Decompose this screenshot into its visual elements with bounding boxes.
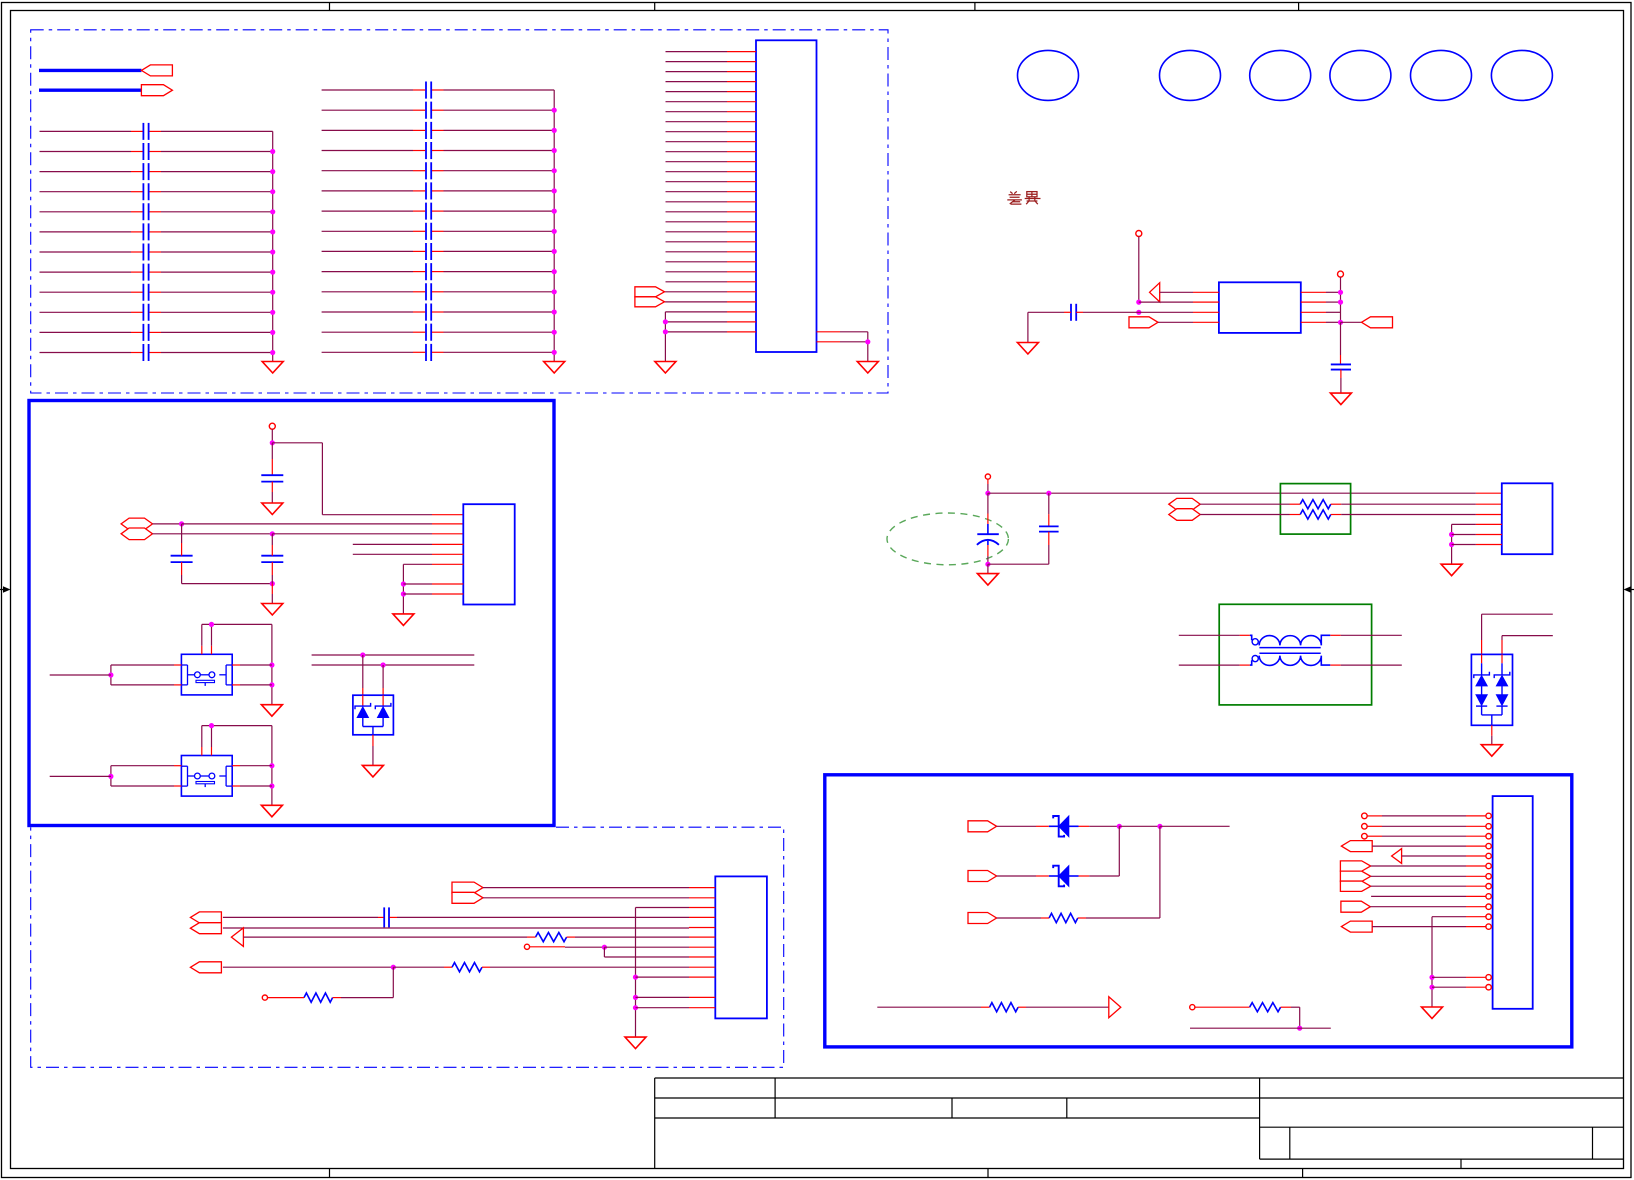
wire: [1200, 514, 1289, 516]
wire right bus Y2: [271, 726, 273, 806]
wire net to J3 pin1: [988, 492, 1476, 494]
port to J4 pin5: [190, 923, 221, 934]
wire right bus: [1340, 277, 1342, 322]
T1 core: [1259, 647, 1320, 649]
mounting hole pad M6: [1491, 50, 1552, 100]
capacitor C: [261, 555, 283, 557]
wire to ground: [271, 584, 273, 594]
port to J4 pin9: [190, 962, 221, 973]
arrow head: [231, 928, 243, 947]
junctions bank 2: [552, 108, 557, 113]
port from U2 pin5: [1362, 317, 1393, 328]
Y2 right pin wires: [232, 765, 240, 767]
test point TP4: [985, 474, 990, 479]
ground: [262, 362, 283, 374]
ground: [1017, 343, 1038, 355]
label text 差異: [1007, 191, 1022, 204]
resistor RN1a: [1300, 500, 1331, 509]
highlight ellipse (dashed): [887, 513, 1008, 565]
wire T1 in bottom: [1179, 664, 1240, 666]
port P2 (right-pointing) with bus wire: [39, 88, 141, 91]
net circle: [1362, 824, 1368, 830]
wire to ground: [987, 564, 989, 573]
wire to J2 pin2: [153, 523, 182, 525]
port (bidir): [121, 528, 152, 540]
wire: [362, 655, 364, 688]
wire: [181, 524, 183, 543]
resistor R6: [990, 1003, 1019, 1012]
test point TP7: [1190, 1005, 1195, 1010]
resistor R7: [1250, 1003, 1281, 1012]
wire to ground: [1491, 725, 1493, 736]
wire: [997, 917, 1041, 919]
diode array D2: [1471, 654, 1512, 725]
ground: [261, 805, 282, 817]
J2 pin5 stub: [353, 553, 432, 555]
resistor network RN1: [1280, 484, 1350, 534]
port to J1 pin25: [635, 287, 665, 297]
wire J5 pin9 stub: [1371, 895, 1466, 897]
connector J3: [1502, 483, 1553, 554]
zener D4: [1059, 866, 1069, 887]
Y2 left pin wires: [174, 765, 181, 767]
mounting hole pad M1: [1018, 50, 1079, 100]
wire U2 pin1: [1160, 291, 1193, 293]
ground: [362, 765, 383, 777]
ground: [393, 614, 414, 626]
wire T1 in top: [1179, 634, 1240, 636]
wire J3 pin5: [1452, 534, 1476, 536]
node: [1136, 300, 1141, 305]
ground bus: [402, 564, 404, 614]
wire: [997, 825, 1036, 827]
zener D1b: [382, 695, 384, 705]
ground: [261, 705, 282, 717]
IC U2: [1219, 282, 1301, 333]
wire J4 pin8: [603, 947, 605, 957]
wire to ground: [1027, 312, 1029, 342]
wire net A: [312, 654, 475, 656]
wire J3 pin6: [1452, 544, 1476, 546]
wire: [1482, 613, 1553, 615]
T1 phase dot bottom: [1252, 656, 1258, 662]
wire J5 pin5: [1402, 855, 1466, 857]
ground bus left of J1: [664, 312, 666, 362]
port to J4 pin1: [452, 882, 483, 893]
test point TP3: [269, 423, 275, 429]
arrow head: [1392, 849, 1402, 864]
T1 bottom winding: [1250, 656, 1330, 666]
mounting hole pad M3: [1250, 50, 1311, 100]
mounting hole pad M5: [1411, 50, 1472, 100]
ground: [262, 604, 283, 616]
wire to J2 pin3: [153, 533, 273, 535]
wire U2 pin4: [1158, 321, 1193, 323]
polarized capacitor C+: [987, 493, 989, 513]
wire J5 pin14: [1432, 986, 1466, 988]
wire to ground: [1340, 370, 1342, 379]
T1 top winding: [1250, 635, 1330, 645]
capacitor bank C-array1 plates: [143, 123, 148, 361]
choke T1 box: [1219, 604, 1371, 705]
wire T1 out bottom: [1330, 664, 1340, 666]
wire: [271, 534, 273, 545]
test point TP6: [262, 995, 267, 1000]
wire J5 pin3: [1367, 835, 1382, 837]
wire J5 pin8: [1371, 885, 1466, 887]
wire: [1200, 503, 1289, 505]
connector J4: [715, 876, 767, 1018]
wire: [1502, 635, 1553, 637]
capacitor bank C-array2 plates: [426, 82, 431, 362]
wire to C: [1340, 322, 1342, 355]
resistor R2: [536, 933, 567, 942]
port 1: [968, 821, 997, 832]
wire J4 pin5: [223, 927, 689, 929]
diode array D1: [353, 695, 394, 735]
ground bus: [635, 908, 637, 1038]
wire J4 pin4: [223, 916, 378, 918]
capacitor C: [1048, 493, 1050, 514]
resistor R5: [1049, 913, 1078, 922]
wire: [271, 482, 273, 492]
wire J2 pin8: [403, 593, 432, 595]
port into U2 pin4: [1129, 317, 1158, 328]
connector J2: [463, 504, 514, 604]
mounting hole pad M2: [1160, 50, 1221, 100]
wire: [382, 665, 384, 688]
connector J5: [1493, 796, 1533, 1009]
resistor RN1b: [1300, 510, 1331, 519]
port pin8: [1340, 881, 1370, 891]
zener D3: [1059, 816, 1069, 837]
wire: [271, 429, 273, 443]
wire: [1190, 1027, 1331, 1029]
wire J4 pin11: [636, 996, 690, 998]
test point TP2: [1338, 271, 1344, 277]
port to J1 pin26: [635, 297, 665, 307]
wire J4 pin6: [243, 936, 527, 938]
ground: [1481, 745, 1502, 757]
wire J4 pin9: [223, 966, 393, 968]
wire J4 pin12: [636, 1007, 690, 1009]
ground bus: [1451, 524, 1453, 564]
wire J5 pin7: [1371, 875, 1466, 877]
pins of J1: [727, 51, 756, 53]
port P1 (left-pointing) with bus wire: [39, 69, 141, 72]
ground: [857, 362, 878, 374]
wire J5 pin13: [1432, 976, 1466, 978]
wire J4 pin10: [636, 976, 690, 978]
port to J4 pin2: [452, 892, 483, 903]
capacitor C: [261, 474, 283, 476]
wire J4 pin3: [636, 907, 690, 909]
net circle: [1362, 813, 1368, 819]
J2 pin4 stub: [353, 543, 432, 545]
Y1 left pin wires: [174, 664, 181, 666]
wire J3 pin4: [1452, 523, 1476, 525]
capacitor C: [171, 555, 193, 557]
wire J5 pin1: [1367, 815, 1382, 817]
wires of capacitor bank 2: [322, 89, 413, 91]
wire U2 pin5: [1301, 321, 1326, 323]
crystal Y2: [181, 756, 232, 797]
wire: [202, 725, 272, 727]
ground: [1422, 1007, 1443, 1019]
ground: [977, 574, 998, 586]
capacitor C: [1331, 363, 1351, 365]
connector J1: [756, 40, 817, 352]
ground bus of bank 1: [272, 131, 274, 361]
ground: [655, 362, 676, 374]
wire: [1138, 237, 1140, 303]
wire: [271, 443, 273, 459]
wire: [997, 875, 1036, 877]
wire stub: [50, 775, 111, 777]
port 2: [968, 871, 997, 882]
crystal Y1: [181, 654, 232, 695]
port to J4 pin4: [190, 912, 221, 923]
ground: [1330, 393, 1351, 405]
ground bus: [1431, 917, 1433, 1007]
wire branch: [268, 997, 304, 999]
D2 column 2: [1501, 654, 1503, 663]
port (bidir): [121, 518, 152, 530]
wire: [202, 623, 272, 625]
Y1 right pin wires: [232, 664, 240, 666]
wire: [1195, 1006, 1249, 1008]
ground bus of bank 2: [553, 90, 555, 362]
wire J5 pin6: [1371, 865, 1466, 867]
capacitor C series: [383, 907, 385, 927]
wire U2 pin2: [1139, 301, 1193, 303]
net circle: [1362, 833, 1368, 839]
D1 common: [362, 718, 364, 727]
test point TP1: [1136, 231, 1142, 237]
wire J5 pin10: [1370, 906, 1466, 908]
buffer arrow: [1109, 997, 1121, 1018]
arrow head into U2 pin1: [1150, 283, 1160, 302]
wire to J2 pin1: [272, 442, 322, 444]
wire J4 pin7: [530, 946, 565, 948]
ground: [544, 362, 565, 374]
test point TP5: [524, 944, 529, 949]
wire U2 pin3: [1028, 311, 1064, 313]
port pin10: [1341, 901, 1370, 912]
D2 column 1: [1481, 654, 1483, 663]
D2 common: [1482, 714, 1502, 716]
wire net B: [312, 664, 475, 666]
wire: [988, 563, 1049, 565]
port from J5 pin12: [1341, 921, 1372, 932]
junctions bank 1: [270, 149, 275, 154]
port pin7: [1340, 871, 1370, 881]
J5 pins with pads: [1466, 815, 1486, 817]
wire J4 pin2: [483, 897, 689, 899]
wire J5 pin2: [1367, 825, 1382, 827]
wire J2 pin6: [403, 563, 432, 565]
wire J5 pin11: [1432, 916, 1466, 918]
wire J5 pin12: [1372, 926, 1466, 928]
wire J5 pin4: [1372, 845, 1466, 847]
ground: [262, 503, 283, 515]
port 3: [968, 913, 997, 924]
wire U2 pin8: [1301, 291, 1326, 293]
J1 right pin wires: [817, 331, 841, 333]
wire: [987, 479, 989, 484]
wire right bus Y1: [271, 624, 273, 704]
zener D1a: [362, 695, 364, 705]
capacitor C in series: [1070, 304, 1072, 321]
ground: [625, 1037, 646, 1049]
resistor R3: [452, 963, 482, 972]
wire T1 out top: [1330, 634, 1340, 636]
wires of capacitor bank 1: [40, 130, 132, 132]
port (bidir): [1169, 498, 1200, 510]
wire stub: [50, 674, 111, 676]
Y1 top pins: [201, 646, 203, 655]
T1 phase dot top: [1252, 639, 1258, 645]
mounting hole pad M4: [1330, 50, 1391, 100]
resistor R4: [304, 993, 333, 1002]
Y2 top pins: [201, 747, 203, 756]
wire to ground: [372, 735, 374, 746]
port from J5 pin4: [1341, 841, 1372, 852]
port pin6: [1340, 861, 1370, 871]
ground: [1441, 564, 1462, 576]
wire J4 pin1: [483, 887, 689, 889]
wire U2 pin7: [1301, 301, 1326, 303]
wire J2 pin7: [403, 583, 432, 585]
port (bidir): [1169, 509, 1200, 521]
wire: [877, 1006, 981, 1008]
wire U2 pin6: [1301, 311, 1326, 313]
